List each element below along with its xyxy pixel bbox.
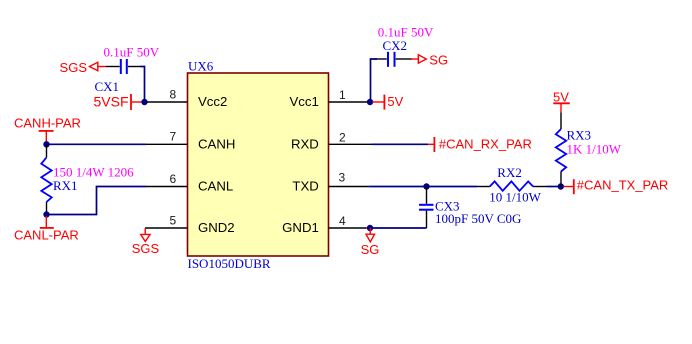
wire GND1 row xyxy=(370,227,427,229)
ground SG at pin 4 xyxy=(361,228,380,257)
pin 1 Vcc1 stub xyxy=(329,101,368,103)
svg-text:5VSF: 5VSF xyxy=(93,93,128,109)
pin 6 CANL stub xyxy=(146,186,188,188)
svg-text:100pF 50V C0G: 100pF 50V C0G xyxy=(435,211,521,226)
wire CANH row xyxy=(47,143,147,145)
svg-text:CX2: CX2 xyxy=(383,38,408,53)
port CANL-PAR xyxy=(14,216,79,243)
port #CAN_RX_PAR xyxy=(428,136,532,152)
svg-text:6: 6 xyxy=(170,172,177,186)
svg-text:5: 5 xyxy=(170,213,177,227)
svg-text:#CAN_TX_PAR: #CAN_TX_PAR xyxy=(577,178,669,193)
pin 7 CANH stub xyxy=(146,143,188,145)
svg-text:0.1uF 50V: 0.1uF 50V xyxy=(104,45,160,60)
svg-text:8: 8 xyxy=(170,87,177,101)
svg-text:CANH-PAR: CANH-PAR xyxy=(14,116,81,131)
capacitor CX2 xyxy=(374,52,412,67)
pin 2 RXD stub xyxy=(329,143,372,145)
svg-text:SG: SG xyxy=(429,53,448,68)
port #CAN_TX_PAR xyxy=(564,178,669,195)
power port SG (top right) xyxy=(412,53,449,68)
svg-text:RXD: RXD xyxy=(291,137,319,152)
svg-text:RX3: RX3 xyxy=(567,127,592,142)
wire CX1 to pin8 junction xyxy=(141,67,145,103)
junction node TXD/CX3 xyxy=(423,183,429,189)
wire RX2 to TX junction xyxy=(547,186,562,188)
capacitor CX3 xyxy=(419,187,434,229)
svg-text:5V: 5V xyxy=(387,94,403,109)
svg-text:7: 7 xyxy=(170,130,177,144)
svg-text:3: 3 xyxy=(339,171,346,185)
wire pin8 black segment xyxy=(146,101,148,103)
pin 3 TXD stub xyxy=(329,186,370,188)
junction node GND1 xyxy=(367,225,373,231)
svg-text:5V: 5V xyxy=(553,90,569,105)
svg-text:UX6: UX6 xyxy=(188,59,214,74)
pin 5 GND2 stub xyxy=(145,227,188,229)
svg-text:CX1: CX1 xyxy=(95,79,120,94)
svg-text:GND2: GND2 xyxy=(198,220,235,235)
svg-text:10 1/10W: 10 1/10W xyxy=(489,190,541,205)
wire TXD junction to RX2 xyxy=(427,186,478,188)
svg-text:1K 1/10W: 1K 1/10W xyxy=(567,141,622,156)
wire RXD row xyxy=(372,143,429,145)
power port 5V (top right) xyxy=(553,90,570,113)
svg-text:#CAN_RX_PAR: #CAN_RX_PAR xyxy=(439,136,532,151)
IC UX6 body xyxy=(188,73,329,256)
svg-text:CANH: CANH xyxy=(198,137,235,152)
wire CANL row L-shape xyxy=(47,187,147,215)
power port 5VSF xyxy=(93,93,142,110)
wire TXD row xyxy=(369,186,426,188)
svg-text:SGS: SGS xyxy=(132,241,160,256)
resistor RX1 xyxy=(41,144,51,214)
svg-text:GND1: GND1 xyxy=(282,220,319,235)
pin 4 GND1 stub xyxy=(329,227,367,229)
resistor RX2 xyxy=(477,181,547,190)
junction node CANL xyxy=(43,211,49,217)
power port SGS (top left) xyxy=(60,60,106,75)
svg-text:CANL: CANL xyxy=(198,179,233,194)
svg-text:RX2: RX2 xyxy=(497,165,522,180)
pin 8 Vcc2 stub xyxy=(146,101,188,103)
svg-text:ISO1050DUBR: ISO1050DUBR xyxy=(188,256,271,271)
resistor RX3 xyxy=(556,112,566,186)
svg-text:Vcc1: Vcc1 xyxy=(289,94,318,109)
svg-text:SGS: SGS xyxy=(60,60,88,75)
junction node at pin 1 xyxy=(367,99,373,105)
svg-text:Vcc2: Vcc2 xyxy=(198,94,227,109)
svg-text:SG: SG xyxy=(361,242,380,257)
svg-text:RX1: RX1 xyxy=(53,178,78,193)
junction node TX xyxy=(558,183,564,189)
power port 5V at pin 1 xyxy=(373,94,404,110)
svg-text:4: 4 xyxy=(339,214,346,228)
svg-text:1: 1 xyxy=(339,88,346,102)
junction node CANH xyxy=(43,141,49,147)
capacitor CX1 xyxy=(106,59,142,74)
ground SGS at pin 5 xyxy=(132,228,160,256)
svg-text:TXD: TXD xyxy=(292,179,318,194)
svg-text:CANL-PAR: CANL-PAR xyxy=(14,228,79,243)
wire CX2 to pin1 junction xyxy=(371,59,378,102)
port CANH-PAR xyxy=(14,116,81,143)
junction node at pin 8 xyxy=(141,99,147,105)
svg-text:2: 2 xyxy=(339,131,346,145)
